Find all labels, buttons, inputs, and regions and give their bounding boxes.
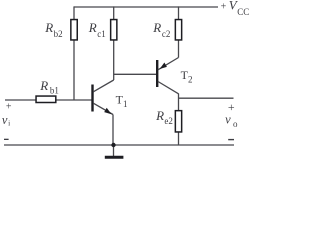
- wire Rb2 top drop: [73, 6, 75, 19]
- wire Rb2 bottom to input node: [73, 40, 75, 100]
- label Rb2: [44, 20, 62, 39]
- label vi: [2, 113, 10, 128]
- wire output node to vo terminal: [179, 97, 234, 99]
- svg-text:CC: CC: [237, 7, 249, 17]
- label Rc2 (top): [152, 20, 170, 39]
- svg-text:i: i: [8, 118, 10, 127]
- wire Re2 top drop: [178, 6, 180, 19]
- label T2: [181, 68, 193, 85]
- svg-text:+: +: [6, 102, 12, 113]
- svg-text:v: v: [225, 113, 231, 127]
- transistor T1: [93, 80, 114, 115]
- T1 emitter arrow: [104, 108, 111, 115]
- svg-text:R: R: [39, 78, 48, 93]
- resistor Rc2 (top right): [175, 20, 181, 40]
- resistor Re2 (bottom right): [175, 111, 181, 132]
- label Rb1: [39, 78, 59, 96]
- wire top rail VCC: [74, 6, 218, 8]
- svg-text:+: +: [221, 2, 227, 13]
- wire bottom rail: [4, 144, 234, 146]
- svg-text:R: R: [44, 20, 53, 35]
- svg-text:o: o: [233, 119, 238, 129]
- svg-text:R: R: [88, 20, 97, 35]
- svg-text:e2: e2: [164, 116, 173, 126]
- resistor Rc1: [111, 20, 117, 40]
- ground: [105, 156, 124, 159]
- svg-text:b1: b1: [50, 86, 59, 96]
- label vo terminal minus: [228, 139, 234, 140]
- T2 emitter arrow (PNP, points into base bar): [160, 63, 167, 70]
- T2 collector line: [158, 82, 179, 94]
- resistor Rb1 (horizontal, input): [36, 96, 56, 102]
- wire Re2 bottom to T2 emitter corner: [178, 40, 180, 57]
- resistor Rb2: [71, 20, 77, 40]
- svg-text:R: R: [152, 20, 161, 35]
- junction dot emitter T1 / ground rail: [111, 143, 115, 147]
- T1 base bar: [91, 85, 93, 112]
- wire T2 collector vertical: [178, 94, 180, 111]
- label vo: [225, 113, 238, 129]
- svg-text:v: v: [2, 113, 8, 127]
- label vi terminal minus: [4, 139, 9, 140]
- label Rc1: [88, 20, 106, 39]
- wire Rc1 top drop: [113, 6, 115, 19]
- transistor T2: [157, 58, 178, 94]
- wire node collector T1 to base T2: [114, 73, 156, 75]
- wire Rc2b bottom to rail: [178, 132, 180, 145]
- label T1: [116, 93, 128, 110]
- svg-text:b2: b2: [54, 29, 63, 39]
- T1 collector line: [93, 80, 113, 92]
- wire ground stub: [113, 145, 115, 156]
- svg-text:2: 2: [188, 74, 193, 84]
- label +VCC: [221, 0, 250, 17]
- svg-text:1: 1: [123, 99, 128, 109]
- T1 emitter line: [93, 103, 113, 114]
- T2 base bar: [156, 60, 158, 87]
- T2 emitter line: [158, 58, 179, 70]
- wire Rc1 bottom to collector node: [113, 40, 115, 80]
- svg-text:c1: c1: [97, 29, 106, 39]
- wire input left to T1 base: [5, 99, 92, 101]
- svg-text:c2: c2: [162, 29, 171, 39]
- label Re2 (bottom): [155, 108, 173, 126]
- wire T1 emitter vertical to ground rail: [112, 115, 114, 146]
- svg-text:R: R: [155, 108, 164, 123]
